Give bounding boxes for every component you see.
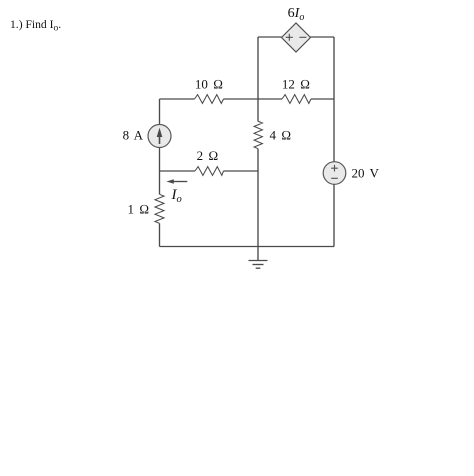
Io arrow pointing left [166, 179, 187, 184]
wire: below 20V to bottom [333, 184, 335, 246]
wire: dependent source right vertex to top-right corner [311, 36, 335, 38]
svg-text:2 Ω: 2 Ω [197, 148, 219, 163]
wire: 2ohm to middle branch [224, 170, 259, 172]
2 ohm branch wire left [160, 170, 196, 172]
left branch: wire from main wire to 8A source [159, 99, 161, 125]
resistor R 4ohm vertical zigzag [254, 121, 262, 148]
main horizontal wire y=99 (left part) [160, 98, 195, 100]
plus sign inside 20V [331, 165, 338, 172]
svg-text:10 Ω: 10 Ω [195, 77, 223, 92]
svg-text:12 Ω: 12 Ω [282, 77, 310, 92]
svg-text:20 V: 20 V [352, 166, 380, 181]
arrow inside 8A source pointing up [159, 135, 161, 144]
wire: top-left segment from node at (258,37) to dependent source [258, 36, 282, 38]
svg-text:1 Ω: 1 Ω [128, 202, 150, 217]
wire: below 4ohm to bottom [257, 149, 259, 247]
minus sign inside diamond [299, 36, 306, 38]
voltage source V1: 20V circle [323, 162, 346, 185]
wire: below 1ohm to bottom [159, 223, 161, 246]
svg-text:6Io: 6Io [288, 6, 305, 23]
wire: right branch vertical top (334,37)-(334,99) [333, 37, 335, 99]
svg-text:Io: Io [171, 187, 182, 205]
current source I1: 8A circle [148, 125, 171, 148]
resistor R 10ohm zigzag [195, 95, 224, 104]
wire: middle branch top vertical (258,37)-(258,99) [257, 37, 259, 99]
resistor R 1ohm vertical zigzag [155, 194, 164, 223]
middle branch: wire main to 4ohm [257, 99, 259, 121]
right branch: wire from main to 20V source [333, 99, 335, 162]
wire: 12ohm to right branch [311, 98, 334, 100]
svg-text:8 A: 8 A [123, 128, 144, 143]
svg-text:1.) Find Io.: 1.) Find Io. [10, 18, 61, 34]
bottom wire [160, 246, 335, 248]
resistor R 2ohm zigzag [195, 167, 224, 176]
resistor R 12ohm zigzag [282, 95, 311, 104]
svg-text:4 Ω: 4 Ω [270, 128, 292, 143]
wire: between 10ohm and middle node [224, 98, 283, 100]
minus sign inside 20V [331, 177, 338, 179]
wire: below 8A source to 1ohm [159, 148, 161, 195]
plus sign inside diamond [286, 34, 293, 41]
ground symbol [249, 247, 268, 269]
dependent source U1: diamond 6Io [282, 23, 311, 52]
